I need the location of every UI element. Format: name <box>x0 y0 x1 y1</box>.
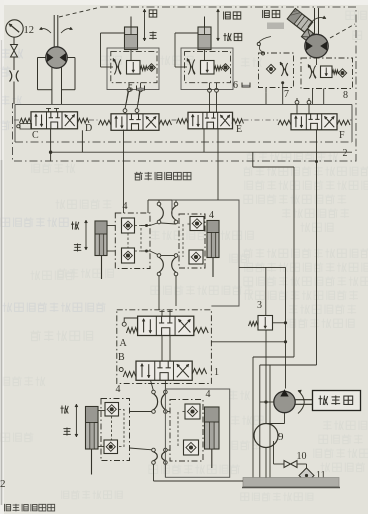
check valve in block 5 <box>148 64 156 72</box>
valve F top ports <box>295 100 299 104</box>
throttle in block 8 <box>309 66 311 79</box>
rear-left pilot check valves <box>105 403 119 417</box>
svg-text:9: 9 <box>278 431 284 443</box>
svg-text:2: 2 <box>343 148 348 159</box>
feed header wire <box>239 266 286 268</box>
front-left cylinder wires <box>107 225 115 227</box>
front-right lock block 4 <box>179 214 205 268</box>
front-right pilot check valves <box>190 217 204 231</box>
dashed link motor to border <box>59 8 99 18</box>
svg-text:F: F <box>339 130 345 141</box>
valve D top ports <box>123 109 127 113</box>
strainer 9 <box>254 424 278 448</box>
rear-right lock block 4 <box>170 400 203 462</box>
svg-text:6: 6 <box>233 80 238 91</box>
throttle in block 7 <box>281 63 283 76</box>
drain wire b <box>259 365 261 478</box>
svg-text:D: D <box>85 123 92 134</box>
block 6 dash-dot box <box>185 52 231 83</box>
valve C <box>31 112 78 129</box>
filter 11 <box>299 468 314 483</box>
rear-left cylinder wires <box>98 410 105 412</box>
caption front outrigger cylinders <box>134 172 142 180</box>
relief 3 wires <box>265 267 267 315</box>
block 7 connections <box>257 42 260 45</box>
svg-text:4: 4 <box>206 389 211 400</box>
rear-left retract/deploy labels <box>60 405 68 413</box>
valve D <box>111 114 159 131</box>
front-right outer box <box>172 200 239 306</box>
svg-text:8: 8 <box>343 90 348 101</box>
block 7 dash-dot box <box>259 53 294 88</box>
check valve in block 8 <box>338 69 346 77</box>
valve E <box>188 112 233 129</box>
block 8 dash-dot box <box>301 58 353 89</box>
block 6 outer box <box>181 48 233 90</box>
pump inlet from left <box>260 401 274 403</box>
valve F <box>291 114 337 130</box>
valve A stubs <box>161 310 163 316</box>
check valve in block 6 <box>222 64 230 72</box>
svg-text:1: 1 <box>214 367 219 378</box>
front-left retract/deploy labels <box>71 221 79 229</box>
dashed link motor2 to border <box>330 24 355 38</box>
svg-text:C: C <box>32 130 39 141</box>
feed from valve group <box>211 341 285 343</box>
rear-left outrigger cylinder <box>86 407 99 450</box>
block 5 wires <box>107 66 113 68</box>
bank tank stubs <box>50 129 52 162</box>
front-left pilot check valves <box>122 218 135 233</box>
label extend/retract with arrow <box>149 10 157 17</box>
rear-right outrigger cylinder <box>205 407 220 449</box>
PTO label <box>319 396 328 405</box>
svg-text:7: 7 <box>284 89 289 100</box>
svg-text:2: 2 <box>0 478 6 490</box>
quick coupling <box>10 71 12 82</box>
caption rear outrigger cylinders <box>4 504 10 511</box>
relief valve in block 6 <box>201 61 215 75</box>
svg-text:A: A <box>120 338 128 349</box>
label amplitude up/down with arrow <box>224 11 231 19</box>
shutoff valve 10 <box>284 461 291 468</box>
jog wire d <box>293 167 295 357</box>
svg-text:10: 10 <box>297 451 307 462</box>
front-left pilot lines <box>127 233 129 248</box>
jog wire e <box>316 130 318 366</box>
winch hydraulic motor <box>314 8 316 35</box>
svg-text:4: 4 <box>209 210 214 221</box>
throttle valve in block 5 <box>114 60 116 75</box>
motor port wires <box>38 57 46 59</box>
front-right outrigger cylinder <box>207 221 219 258</box>
cylinder (telescope) <box>125 27 138 50</box>
svg-text:3: 3 <box>257 300 262 311</box>
svg-text:B: B <box>118 352 125 363</box>
bracket plate <box>267 23 284 30</box>
block 6 ports <box>208 88 212 92</box>
oil tank <box>243 478 339 487</box>
drive shaft <box>295 399 312 401</box>
shutoff valve (gauge isolator) <box>11 45 18 51</box>
valve bank enclosure 2 <box>15 104 352 106</box>
block 8 wires <box>316 58 318 65</box>
bank chain dash-dot <box>14 119 20 121</box>
rear-right pilot check valves <box>185 404 200 419</box>
check valve in block 7 <box>266 64 275 73</box>
svg-text:12: 12 <box>24 25 35 36</box>
dash-dot border of upper group <box>13 7 357 161</box>
relief valve in block 8 <box>321 66 333 78</box>
valve E top stubs <box>209 104 211 112</box>
rear outer box <box>165 389 229 477</box>
drain wire a <box>252 357 254 478</box>
pressure gauge 12 <box>6 20 23 37</box>
main pump <box>274 391 295 412</box>
valve B <box>136 361 192 380</box>
block 5 ports <box>127 88 131 92</box>
rear-left pilot lines <box>111 416 113 440</box>
riser bank to front-left block <box>123 130 125 214</box>
front swivel hoses top <box>157 202 161 206</box>
block 5 dash-dot box <box>111 52 157 83</box>
valve group 1 dash-dot box <box>117 310 212 384</box>
drain wire c <box>269 365 271 478</box>
rear-left lock block 4 <box>101 399 130 461</box>
label brake cylinder <box>263 10 270 18</box>
valve A <box>138 316 194 335</box>
circle 9 to tank <box>265 448 267 478</box>
rear swivel hoses bottom <box>152 448 156 452</box>
svg-text:E: E <box>236 124 242 135</box>
rotation arrow <box>298 391 304 414</box>
brake pad hatch block <box>301 29 318 45</box>
rear swivel hoses top <box>152 390 156 394</box>
slewing hydraulic motor <box>53 15 55 48</box>
front swivel hoses bottom <box>157 254 161 258</box>
A-B interconnect <box>161 336 163 362</box>
relief valve in block 5 <box>127 61 141 75</box>
block 6 wires <box>181 66 187 68</box>
pump suction elbow <box>284 413 286 424</box>
pump feed wire <box>285 267 287 388</box>
svg-text:4: 4 <box>116 384 121 395</box>
front-left lock block 4 <box>115 213 150 269</box>
PTO box <box>313 391 361 411</box>
riser bank to front-right box <box>217 128 219 200</box>
rear-right pilot lines <box>177 412 179 447</box>
block 5 outer box <box>107 48 159 90</box>
front-right pilot lines <box>182 224 184 257</box>
rear wires to hoses <box>130 411 152 413</box>
valve C top stubs <box>48 109 50 113</box>
cylinder (luffing) <box>198 27 211 50</box>
valve C lever <box>20 124 32 130</box>
throttle valve in block 6 <box>188 60 190 75</box>
front-left outrigger cylinder <box>95 221 107 256</box>
brake cylinder (tilted) <box>287 9 312 33</box>
